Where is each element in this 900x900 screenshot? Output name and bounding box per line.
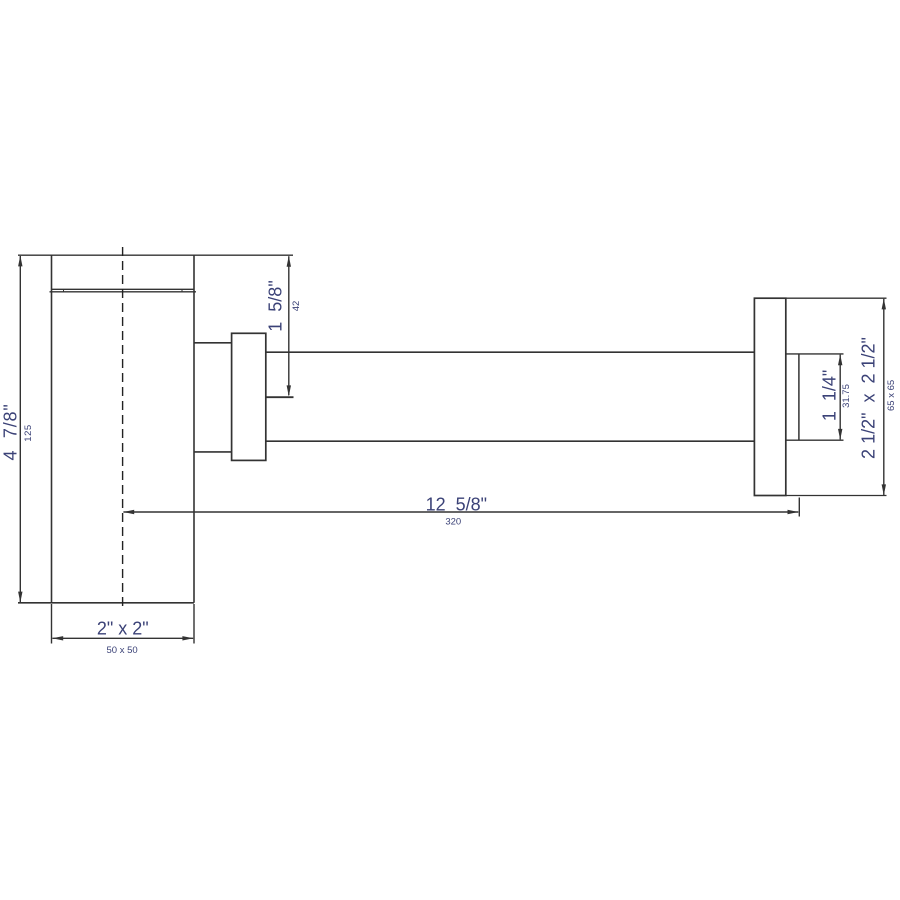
- svg-text:1 5/8": 1 5/8": [266, 280, 286, 331]
- svg-text:2" x 2": 2" x 2": [97, 619, 149, 639]
- dim line 12 5/8: [123, 511, 798, 513]
- svg-text:31.75: 31.75: [841, 384, 852, 408]
- dim line 4 7/8: [19, 256, 21, 603]
- cap tick right: [181, 289, 183, 292]
- pipe end right edge: [798, 354, 800, 440]
- dim line 2 1/2 x 2 1/2: [883, 299, 885, 495]
- svg-text:12 5/8": 12 5/8": [426, 495, 487, 515]
- wall flange: [754, 298, 785, 495]
- tube centre tick: [266, 396, 294, 398]
- svg-text:4 7/8": 4 7/8": [1, 403, 21, 460]
- dim line 1 1/4: [839, 355, 841, 440]
- svg-text:320: 320: [445, 517, 461, 528]
- bottom dim extension left: [51, 604, 53, 644]
- body bottom line: [18, 602, 194, 604]
- svg-text:2 1/2" x 2 1/2": 2 1/2" x 2 1/2": [859, 337, 879, 459]
- bottom dim extension right: [193, 604, 195, 644]
- dashed centerline: [122, 247, 124, 608]
- flange top extension: [786, 297, 887, 299]
- tube bottom: [266, 440, 755, 442]
- body shoulder line: [50, 291, 197, 293]
- svg-text:42: 42: [291, 301, 302, 312]
- 12 5/8 right extension: [798, 498, 800, 517]
- body left edge: [51, 255, 53, 603]
- stub top: [194, 342, 232, 344]
- tube top: [266, 351, 755, 353]
- pipe end top / extension: [786, 353, 844, 355]
- flange bottom extension: [786, 495, 887, 497]
- stub bottom: [194, 451, 232, 453]
- dim line 2 x 2: [52, 637, 193, 639]
- svg-text:50 x 50: 50 x 50: [107, 645, 138, 656]
- svg-text:1 1/4": 1 1/4": [820, 370, 840, 421]
- svg-text:125: 125: [23, 424, 34, 441]
- body right edge: [193, 255, 195, 603]
- cap tick left: [63, 289, 65, 292]
- svg-text:65 x 65: 65 x 65: [886, 380, 897, 411]
- dim line 1 5/8: [288, 256, 290, 395]
- trap body top line with extensions: [18, 254, 293, 256]
- collar nut: [232, 333, 266, 460]
- cap bottom line: [52, 288, 195, 290]
- pipe end bottom / extension: [786, 439, 844, 441]
